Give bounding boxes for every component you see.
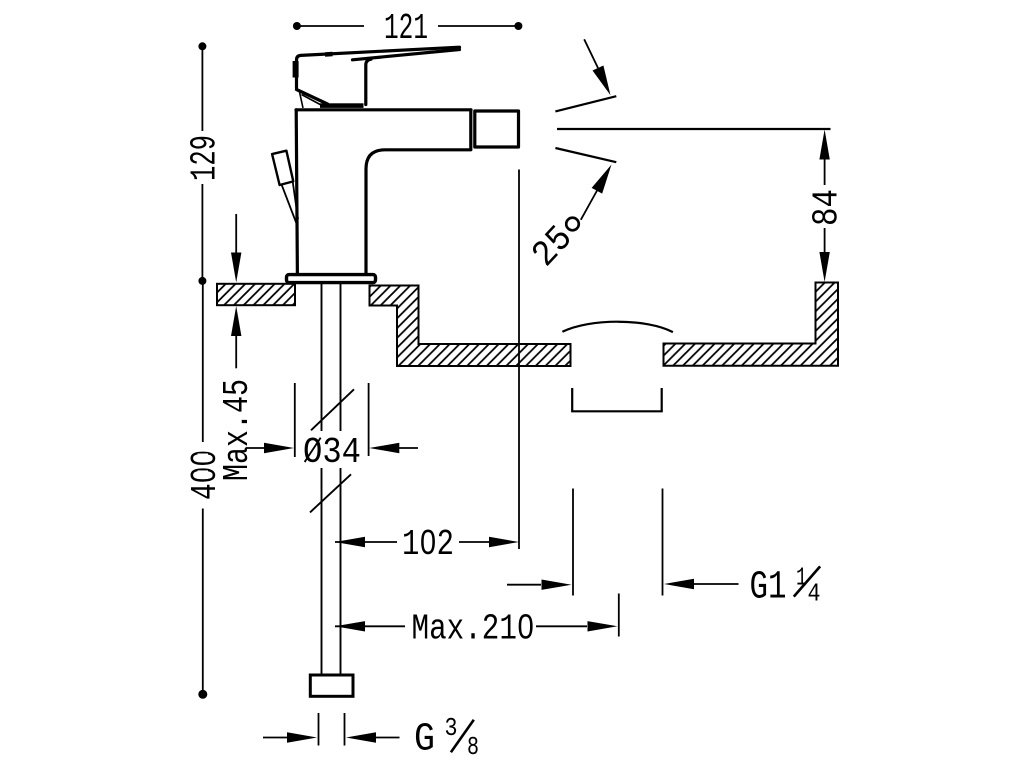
svg-text:Max.45: Max.45	[217, 379, 258, 481]
svg-text:84: 84	[807, 189, 848, 226]
svg-text:4: 4	[808, 579, 821, 609]
svg-text:G1: G1	[750, 566, 787, 611]
svg-text:Ø34: Ø34	[303, 432, 361, 473]
svg-text:Max.210: Max.210	[412, 609, 535, 650]
svg-text:G: G	[414, 718, 435, 763]
svg-text:3: 3	[445, 713, 458, 743]
svg-text:8: 8	[467, 732, 479, 762]
svg-text:1: 1	[796, 563, 807, 593]
svg-text:121: 121	[384, 8, 428, 49]
svg-text:129: 129	[184, 135, 225, 181]
